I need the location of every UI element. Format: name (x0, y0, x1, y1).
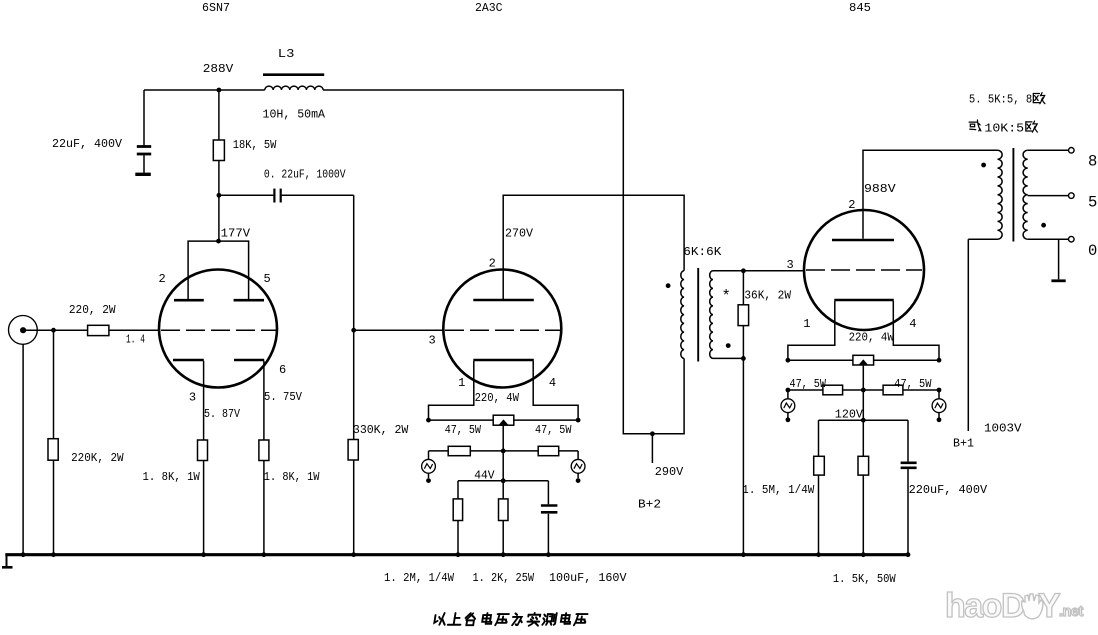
svg-text:.net: .net (1059, 604, 1083, 620)
svg-text:B+1: B+1 (953, 437, 974, 451)
svg-text:220, 4W: 220, 4W (849, 331, 895, 345)
svg-text:100uF, 160V: 100uF, 160V (549, 571, 627, 585)
svg-text:330K, 2W: 330K, 2W (353, 423, 409, 437)
svg-text:177V: 177V (221, 227, 251, 241)
svg-text:0: 0 (1088, 242, 1097, 260)
svg-text:*: * (722, 288, 731, 306)
svg-text:44V: 44V (474, 469, 495, 483)
svg-text:5. 75V: 5. 75V (264, 390, 303, 404)
svg-text:2: 2 (489, 257, 496, 271)
svg-text:47, 5W: 47, 5W (445, 423, 482, 437)
svg-text:845: 845 (849, 1, 871, 15)
svg-text:1. 5K, 50W: 1. 5K, 50W (833, 572, 896, 586)
svg-text:270V: 270V (505, 227, 534, 241)
svg-text:47, 5W: 47, 5W (894, 377, 932, 391)
svg-text:2A3C: 2A3C (475, 1, 503, 15)
svg-text:2: 2 (159, 272, 166, 286)
svg-text:220K, 2W: 220K, 2W (71, 451, 124, 465)
svg-text:3: 3 (189, 391, 196, 405)
svg-text:1. 5M, 1/4W: 1. 5M, 1/4W (742, 483, 815, 497)
svg-text:10K:5: 10K:5 (984, 122, 1024, 136)
svg-text:1. 2K, 25W: 1. 2K, 25W (473, 571, 535, 585)
svg-text:1. 2M, 1/4W: 1. 2M, 1/4W (384, 571, 455, 585)
svg-text:1: 1 (458, 376, 465, 390)
svg-text:47, 5W: 47, 5W (790, 377, 827, 391)
svg-text:8: 8 (1088, 153, 1097, 171)
svg-text:6: 6 (279, 363, 286, 377)
svg-text:18K, 5W: 18K, 5W (233, 138, 277, 152)
svg-text:220, 2W: 220, 2W (69, 303, 116, 317)
svg-text:288V: 288V (203, 62, 234, 76)
svg-text:120V: 120V (835, 407, 864, 421)
svg-text:220, 4W: 220, 4W (475, 391, 520, 405)
svg-text:haoD: haoD (945, 587, 1025, 625)
svg-text:290V: 290V (655, 465, 684, 479)
svg-text:1: 1 (803, 317, 810, 331)
svg-text:5: 5 (1088, 194, 1097, 212)
svg-text:5. 5K:5, 8: 5. 5K:5, 8 (969, 93, 1032, 107)
svg-text:1003V: 1003V (984, 422, 1022, 436)
svg-text:3: 3 (429, 334, 436, 348)
svg-text:36K, 2W: 36K, 2W (744, 288, 791, 302)
svg-text:3: 3 (787, 258, 794, 272)
svg-text:220uF, 400V: 220uF, 400V (909, 483, 988, 497)
svg-text:6K:6K: 6K:6K (683, 245, 722, 259)
svg-text:4: 4 (549, 376, 556, 390)
svg-text:0. 22uF, 1000V: 0. 22uF, 1000V (264, 168, 346, 182)
svg-text:5. 87V: 5. 87V (204, 407, 241, 421)
svg-text:47, 5W: 47, 5W (535, 423, 572, 437)
svg-text:6SN7: 6SN7 (202, 1, 230, 15)
svg-text:5: 5 (264, 272, 271, 286)
svg-text:1. 8K, 1W: 1. 8K, 1W (264, 470, 320, 484)
svg-text:B+2: B+2 (638, 498, 661, 512)
svg-text:1. 4: 1. 4 (126, 333, 145, 347)
svg-text:2: 2 (848, 198, 855, 212)
svg-text:22uF, 400V: 22uF, 400V (52, 137, 123, 151)
svg-text:988V: 988V (864, 182, 896, 196)
svg-text:L3: L3 (278, 47, 295, 61)
svg-text:4: 4 (909, 317, 916, 331)
svg-text:10H, 50mA: 10H, 50mA (263, 108, 326, 122)
svg-text:1. 8K, 1W: 1. 8K, 1W (143, 470, 201, 484)
